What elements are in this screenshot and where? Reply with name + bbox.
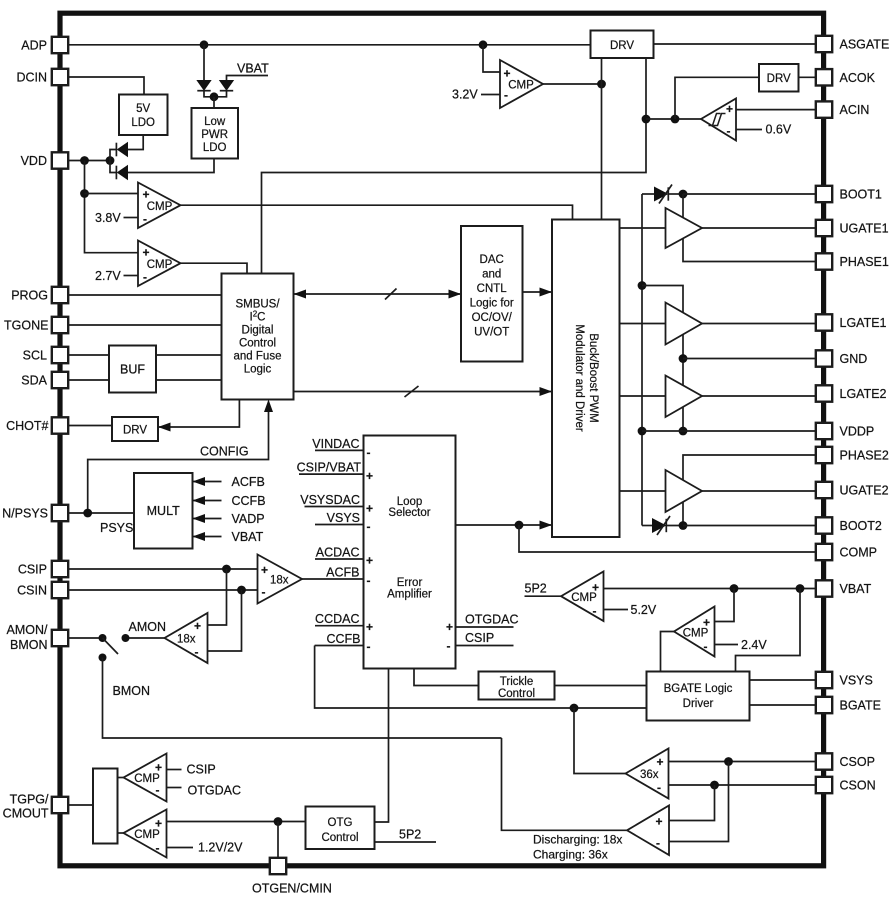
svg-text:Error: Error <box>397 577 423 589</box>
svg-text:Charging: 36x: Charging: 36x <box>533 848 608 862</box>
wire mux to CMP lower <box>118 832 124 834</box>
pin PROG <box>11 287 68 303</box>
svg-text:DRV: DRV <box>767 73 791 85</box>
wire BMON down and right <box>103 658 502 739</box>
pin LGATE2 <box>816 385 887 401</box>
wire LGATE1 <box>702 323 816 325</box>
wire LGATE2 <box>702 395 816 397</box>
node diode junction <box>210 92 219 108</box>
svg-text:COMP: COMP <box>840 546 878 560</box>
svg-text:+: + <box>656 815 663 829</box>
wire/label ACDAC <box>315 546 364 560</box>
DAC and CNTL box <box>461 226 523 362</box>
node CSOP junction <box>724 757 733 766</box>
pin OTGEN/CMIN <box>252 858 332 896</box>
svg-text:36x: 36x <box>640 769 659 781</box>
comparator CMP (CSIP/OTGDAC) <box>124 754 167 802</box>
pin PHASE1 <box>816 253 889 269</box>
node DRV rail junction <box>597 80 606 89</box>
svg-text:+: + <box>366 502 373 516</box>
wire loop box to OTG control <box>375 669 389 823</box>
svg-text:DCIN: DCIN <box>16 70 47 84</box>
svg-text:LGATE2: LGATE2 <box>840 387 887 401</box>
svg-text:VSYS: VSYS <box>327 511 360 525</box>
wire AMON+ to CSIP <box>208 569 227 625</box>
svg-text:OTGDAC: OTGDAC <box>188 784 241 798</box>
wire discharge output to BMON line <box>502 738 628 830</box>
wire MULT input VADP <box>193 512 265 526</box>
wire GND pin <box>683 358 816 360</box>
pin BGATE <box>816 697 881 713</box>
node PSYS junction <box>83 509 92 518</box>
comparator CMP 5P2 <box>561 572 604 622</box>
pin ACIN <box>816 101 870 117</box>
pin UGATE1 <box>816 220 889 236</box>
wire PWM to UGATE2 driver <box>620 490 666 492</box>
wire ADP to CMP3.2 + <box>483 45 500 72</box>
svg-text:DRV: DRV <box>610 40 634 52</box>
node ACIN net junction <box>642 115 651 124</box>
svg-text:UGATE2: UGATE2 <box>840 484 889 498</box>
wire OTGEN pin up <box>277 822 279 858</box>
node BOOT1 junction <box>679 190 688 199</box>
wire CMP2.7 output to SMBUS <box>181 263 248 273</box>
node switch pole <box>99 634 107 642</box>
node VDDP junctions <box>638 427 688 436</box>
svg-text:CSIP: CSIP <box>187 763 216 777</box>
svg-text:OTG: OTG <box>328 817 353 829</box>
wire PWM to LGATE1 driver <box>620 323 666 325</box>
label 2.4V <box>715 638 768 652</box>
node loop output junction <box>515 521 524 530</box>
pin LGATE1 <box>816 314 887 330</box>
wire CSIN to 18x <box>68 589 257 591</box>
label ACFB <box>326 566 359 580</box>
amplifier 36x <box>626 749 669 799</box>
svg-text:AMON/: AMON/ <box>7 623 49 637</box>
svg-text:BOOT1: BOOT1 <box>840 188 882 202</box>
wire MULT input ACFB <box>193 475 265 489</box>
node ADP-CMP junction <box>479 40 488 49</box>
svg-text:2.7V: 2.7V <box>95 269 121 283</box>
svg-text:-: - <box>195 645 199 659</box>
label 5P2 output <box>525 582 562 597</box>
wire PWM to LGATE2 driver <box>620 395 666 397</box>
wire/label CSIP/VBAT <box>297 461 364 475</box>
svg-text:and: and <box>482 269 501 281</box>
svg-text:Trickle: Trickle <box>500 676 533 688</box>
wire CMP3.2 output <box>543 83 602 85</box>
svg-text:BMON: BMON <box>10 638 48 652</box>
label 2.7V <box>95 269 138 283</box>
svg-text:-: - <box>367 574 371 588</box>
node CSIN junction <box>237 586 246 595</box>
wire BOOT1 pin <box>683 193 816 195</box>
pin AMON/BMON <box>7 623 69 652</box>
label 0.6V <box>736 123 792 137</box>
diode D2 (from VBAT) <box>214 81 233 97</box>
svg-text:CSOP: CSOP <box>840 755 875 769</box>
svg-text:OTGEN/CMIN: OTGEN/CMIN <box>252 882 332 896</box>
wire Low PWR LDO output <box>128 159 214 173</box>
wire BOOT1 to driver top <box>682 194 684 218</box>
BGATE Logic Driver box <box>647 672 750 721</box>
comparator CMP (OTGEN) <box>124 810 167 858</box>
wire VDD down to comparators <box>85 161 139 253</box>
svg-text:VINDAC: VINDAC <box>312 437 359 451</box>
svg-text:ASGATE: ASGATE <box>840 38 890 52</box>
wire AMON- to CSIN <box>208 590 242 651</box>
svg-text:+: + <box>726 102 733 116</box>
svg-text:SCL: SCL <box>23 348 47 362</box>
svg-text:Logic for: Logic for <box>470 298 514 310</box>
svg-text:-: - <box>262 585 266 599</box>
wire PWM to UGATE1 driver <box>620 227 666 229</box>
svg-text:VDDP: VDDP <box>840 425 875 439</box>
svg-text:SMBUS/: SMBUS/ <box>235 299 280 311</box>
svg-text:CONFIG: CONFIG <box>200 445 249 459</box>
svg-text:VDD: VDD <box>21 154 47 168</box>
comparator CMP 3.8V <box>138 183 181 229</box>
svg-text:5P2: 5P2 <box>399 828 421 842</box>
node ADP-diode junction <box>200 40 209 49</box>
node GND junction <box>679 354 688 363</box>
node VBAT junction 2 <box>796 584 805 593</box>
wire SCL <box>68 354 221 356</box>
node CCFB/36x junction <box>570 704 579 713</box>
diode D1 (from ADP) <box>197 81 214 97</box>
wire DAC to PWM <box>523 288 553 297</box>
Loop Selector / Error Amplifier box <box>364 436 456 669</box>
pin VDDP <box>816 423 874 439</box>
wire VDDP pin <box>642 430 816 432</box>
pin CSIP <box>18 561 68 577</box>
svg-text:LDO: LDO <box>203 142 227 154</box>
svg-text:CMP: CMP <box>508 80 534 92</box>
svg-text:CMP: CMP <box>571 592 597 604</box>
svg-text:-: - <box>156 783 160 797</box>
svg-text:Control: Control <box>239 338 276 350</box>
svg-text:+: + <box>446 620 453 634</box>
label Discharging/Charging <box>533 833 622 862</box>
svg-text:0.6V: 0.6V <box>766 123 792 137</box>
wire VBAT to CMP2.4 <box>715 589 735 622</box>
wire/label VSYS <box>315 511 364 525</box>
svg-text:Control: Control <box>498 688 535 700</box>
wire/label CCDAC <box>315 612 364 626</box>
label BMON <box>113 684 151 698</box>
wire SMBUS to DRV <box>158 400 239 432</box>
driver U-UG1 <box>666 208 703 248</box>
wire BGATE logic to VSYS <box>750 679 816 681</box>
wire SDA <box>68 379 221 381</box>
svg-text:Control: Control <box>321 832 358 844</box>
svg-text:CMOUT: CMOUT <box>3 806 49 820</box>
wire VDDP rail (boot rail) <box>641 194 643 526</box>
wire/label CCFB input <box>315 632 364 646</box>
svg-text:+: + <box>366 554 373 568</box>
wire VBAT stub <box>227 76 269 81</box>
node VDD junction 1 <box>80 156 89 165</box>
node VBAT junction 1 <box>730 584 739 593</box>
comparator CMP 2.7V <box>138 241 181 287</box>
pin CSON <box>816 777 876 793</box>
wire DRV to ASGATE <box>654 43 816 45</box>
pin VDD <box>21 152 69 168</box>
svg-text:CCDAC: CCDAC <box>315 612 359 626</box>
pin N/PSYS <box>2 505 68 521</box>
diode D4 (LowPWR LDO to VDD) <box>110 161 128 180</box>
svg-text:SDA: SDA <box>21 373 47 387</box>
svg-text:VBAT: VBAT <box>232 530 264 544</box>
wire ADP to diode <box>203 45 205 81</box>
svg-text:OTGDAC: OTGDAC <box>465 613 518 627</box>
pin ADP <box>21 37 68 53</box>
wire/label CSIP stub <box>456 631 514 646</box>
pin ASGATE <box>816 36 889 52</box>
svg-text:ACIN: ACIN <box>840 103 870 117</box>
wire ACIN pin to cmp <box>736 109 816 111</box>
svg-text:ADP: ADP <box>21 38 47 52</box>
svg-text:CSIP: CSIP <box>18 562 47 576</box>
wire BATGONE <box>68 324 221 326</box>
wire CMP3.8 output to PWM <box>181 205 573 219</box>
svg-text:CCFB: CCFB <box>232 494 266 508</box>
OTG Control box <box>306 807 375 850</box>
wire loop output to PWM <box>456 521 553 530</box>
wire UGATE2 bottom to BOOT2 <box>682 502 684 526</box>
svg-text:-: - <box>143 212 147 226</box>
driver U-LG2 <box>666 376 703 418</box>
wire SMBUS-DAC bus <box>294 289 462 300</box>
DRV box (ASGATE driver) <box>591 31 654 59</box>
svg-text:CMP: CMP <box>134 773 160 785</box>
wire OTGPG pin to mux <box>68 804 93 806</box>
amplifier 18x (adapter current sense) <box>258 555 303 604</box>
svg-text:+: + <box>366 469 373 483</box>
svg-text:PWR: PWR <box>201 129 228 141</box>
wire ACIN cmp output <box>646 118 701 120</box>
wire UGATE1 <box>702 227 816 229</box>
mux rectangle (CMOUT select) <box>93 769 118 844</box>
svg-text:Digital: Digital <box>242 325 274 337</box>
svg-text:+: + <box>504 67 511 81</box>
wire DRV rail to PWM box <box>601 58 603 220</box>
svg-text:-: - <box>657 781 661 795</box>
wire mux to CMP upper <box>118 777 124 779</box>
svg-text:5P2: 5P2 <box>525 582 547 596</box>
label CSIP input <box>167 763 216 777</box>
svg-text:Buck/Boost PWM: Buck/Boost PWM <box>587 333 599 422</box>
svg-text:+: + <box>261 563 268 577</box>
wire discharge + to CSON <box>669 785 715 821</box>
Trickle Control box <box>479 672 555 701</box>
svg-text:CHOT#: CHOT# <box>6 419 48 433</box>
node ACOK branch junction <box>671 115 680 124</box>
driver U-LG1 <box>666 303 703 345</box>
label OTGDAC input <box>167 784 241 798</box>
wire OTG 5P2 stub <box>375 828 437 843</box>
svg-text:AMON: AMON <box>129 620 167 634</box>
wire DRV right leg to ACIN net <box>262 58 647 274</box>
node CSON junction <box>710 781 719 790</box>
svg-text:and Fuse: and Fuse <box>234 351 282 363</box>
wire OTGEN cmp + input <box>167 821 306 823</box>
pin VSYS <box>816 672 873 688</box>
svg-text:3.2V: 3.2V <box>452 88 478 102</box>
pin PHASE2 <box>816 447 889 463</box>
SMBUS digital control box U-DIG <box>222 274 294 400</box>
node OTGEN junction <box>274 817 283 826</box>
svg-text:CMP: CMP <box>134 829 160 841</box>
wire PROG <box>68 294 221 296</box>
wire 5V LDO output <box>128 135 144 150</box>
pin BATGONE <box>4 317 68 333</box>
svg-text:CCFB: CCFB <box>326 632 360 646</box>
wire BOOT2 pin <box>683 525 816 527</box>
svg-text:Driver: Driver <box>683 698 714 710</box>
wire CCFB from BGATE rail <box>315 646 647 709</box>
wire PSYS pin to MULT <box>68 512 134 514</box>
wire DRV to PROCHOT# pin <box>68 425 112 427</box>
label 1.2V/2V <box>167 841 244 855</box>
svg-text:MULT: MULT <box>147 504 180 518</box>
wire driver bottom to PHASE1 <box>683 239 816 262</box>
svg-text:-: - <box>367 640 371 654</box>
wire DCIN to 5V LDO <box>68 77 144 95</box>
wire/label VSYSDAC <box>300 493 363 507</box>
pin CSIN <box>17 582 68 598</box>
svg-text:+: + <box>657 755 664 769</box>
diode boot1 <box>642 185 683 204</box>
svg-text:Logic: Logic <box>244 364 272 376</box>
svg-text:5.2V: 5.2V <box>631 603 657 617</box>
wire to COMP pin <box>519 525 816 552</box>
DRV box (PROCHOT driver) <box>112 417 158 441</box>
svg-text:UV/OT: UV/OT <box>474 327 509 339</box>
pin BOOT1 <box>816 186 882 202</box>
pin ACOK <box>816 69 876 85</box>
wire UGATE2 <box>702 490 816 492</box>
svg-text:+: + <box>143 188 150 202</box>
wire/label VINDAC <box>312 437 363 451</box>
svg-text:CSON: CSON <box>840 779 876 793</box>
svg-text:PHASE1: PHASE1 <box>840 255 889 269</box>
node BMON contact <box>99 654 107 662</box>
svg-text:18x: 18x <box>270 575 289 587</box>
wire SMBUS to PWM bus <box>294 386 553 397</box>
label 5.2V <box>604 603 657 617</box>
svg-text:BUF: BUF <box>120 363 145 377</box>
label CONFIG <box>200 445 249 459</box>
node VDD cmp junction <box>80 189 138 198</box>
svg-text:LDO: LDO <box>131 117 155 129</box>
wire CSOP <box>669 761 816 763</box>
svg-text:Low: Low <box>204 116 226 128</box>
svg-text:DAC: DAC <box>480 254 504 266</box>
svg-text:LGATE1: LGATE1 <box>840 316 887 330</box>
svg-text:5V: 5V <box>136 103 150 115</box>
svg-text:2.4V: 2.4V <box>741 638 767 652</box>
svg-text:PROG: PROG <box>11 288 48 302</box>
svg-text:-: - <box>367 446 371 460</box>
label 3.8V <box>95 211 138 225</box>
svg-text:CSIP/VBAT: CSIP/VBAT <box>297 461 362 475</box>
svg-text:BOOT2: BOOT2 <box>840 519 882 533</box>
svg-text:CMP: CMP <box>683 628 709 640</box>
svg-text:-: - <box>367 520 371 534</box>
wire/label OTGDAC stub <box>456 613 519 628</box>
svg-text:GND: GND <box>840 352 868 366</box>
wire AMON/BMON pin <box>68 637 102 639</box>
svg-text:ACFB: ACFB <box>232 475 265 489</box>
label AMON <box>129 620 167 634</box>
wire discharge - to CSOP <box>669 762 729 842</box>
svg-text:I2C: I2C <box>250 310 266 324</box>
svg-text:UGATE1: UGATE1 <box>840 222 889 236</box>
comparator ACIN (hysteresis) <box>701 99 736 141</box>
wire DRV to ACOK pin <box>799 76 816 78</box>
node BOOT2 junction <box>679 521 688 530</box>
svg-text:TGONE: TGONE <box>4 318 48 332</box>
wire CSIP to 18x <box>68 568 257 570</box>
svg-text:-: - <box>656 836 660 850</box>
node AMON contact <box>122 634 130 642</box>
wire 18x output ACFB <box>302 578 364 580</box>
diode boot2 <box>642 516 683 535</box>
wire LGATE1 bottom to GND <box>682 334 684 386</box>
amplifier discharge (18x/36x) <box>627 806 669 856</box>
wire rail to LGATE1 driver top <box>642 286 683 314</box>
svg-text:ACOK: ACOK <box>840 71 876 85</box>
wire MULT input CCFB <box>193 494 266 508</box>
wire VDD <box>68 160 110 162</box>
label VBAT net <box>237 62 269 76</box>
svg-text:BGATE: BGATE <box>840 699 881 713</box>
wire LGATE2 bottom to VDDP <box>682 407 684 432</box>
svg-text:+: + <box>366 620 373 634</box>
wire CMP2.4 output to BGATE logic <box>661 632 675 672</box>
Buck/Boost PWM Modulator box <box>552 220 620 538</box>
svg-text:-: - <box>727 124 731 138</box>
svg-text:N/PSYS: N/PSYS <box>2 506 48 520</box>
label 3.2V <box>452 88 500 102</box>
wire to ACOK DRV <box>675 77 759 119</box>
Low PWR LDO box <box>192 108 239 159</box>
svg-text:-: - <box>156 841 160 855</box>
svg-text:ACDAC: ACDAC <box>316 546 360 560</box>
wire BGATE logic to BGATE <box>750 704 816 706</box>
comparator CMP 3.2V <box>500 60 543 108</box>
diode D3 (5V LDO to VDD) <box>110 143 128 161</box>
svg-text:BMON: BMON <box>113 684 151 698</box>
pin VBAT <box>816 580 872 596</box>
wire VBAT rail <box>604 588 816 590</box>
svg-text:CSIP: CSIP <box>465 631 494 645</box>
switch arm <box>103 638 119 654</box>
node VDD junction 2 <box>106 156 115 165</box>
svg-text:VBAT: VBAT <box>840 582 872 596</box>
svg-text:OC/OV/: OC/OV/ <box>472 312 513 324</box>
wire PHASE2 <box>683 455 816 481</box>
wire Trickle to BGATE logic <box>555 685 647 687</box>
wire 36x output up to CCFB rail <box>574 708 626 774</box>
svg-text:ACFB: ACFB <box>326 566 359 580</box>
svg-text:BGATE Logic: BGATE Logic <box>664 683 733 695</box>
svg-text:-: - <box>593 604 597 618</box>
wire VBAT branch to BGATE logic <box>736 589 801 672</box>
wire CONFIG <box>88 400 273 514</box>
